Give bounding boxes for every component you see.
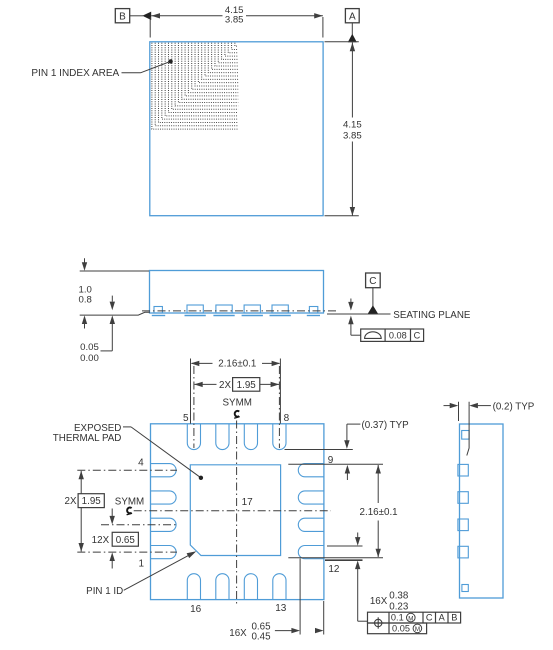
extension line top view lower-right xyxy=(325,215,359,217)
leader (0.37) TYP xyxy=(344,424,360,449)
svg-text:PIN 1 ID: PIN 1 ID xyxy=(86,586,123,597)
extension line pin13 lead end xyxy=(299,559,301,635)
exposed thermal pad outline xyxy=(190,465,280,556)
svg-text:12X: 12X xyxy=(92,535,110,546)
pin 8 slot (top row) xyxy=(273,424,286,450)
dimension 1.0/0.8 text xyxy=(79,284,92,305)
pin 11 slot (right column) xyxy=(298,518,324,531)
pin 1 index area stipple region xyxy=(152,43,238,129)
extension line pad top right xyxy=(288,463,383,465)
pin 13 slot (bottom row) xyxy=(273,574,286,600)
pin 1 slot (left column) xyxy=(151,546,177,559)
symm centerline symbol top xyxy=(234,411,239,418)
pin 4 slot (left column) xyxy=(151,464,177,477)
symm centerline symbol left xyxy=(127,508,132,515)
pin 5 slot (top row) xyxy=(187,424,200,450)
extension line top-left edge xyxy=(149,17,151,38)
leader pin 1 id xyxy=(124,551,197,590)
label (0.2) TYP xyxy=(493,401,535,412)
seating plane gap arrows xyxy=(348,299,361,336)
pin 12 number xyxy=(328,564,340,575)
pin 3 slot (left column) xyxy=(151,491,177,504)
pin 13 number xyxy=(275,603,287,614)
svg-text:4.15: 4.15 xyxy=(343,120,362,131)
bottom view package body outline xyxy=(151,424,324,600)
svg-text:2X: 2X xyxy=(219,380,231,391)
svg-text:0.1: 0.1 xyxy=(391,613,404,623)
right view pad pin 9 xyxy=(458,464,468,476)
pin 5 number xyxy=(183,413,189,424)
right side view body outline xyxy=(460,424,504,598)
side view lead centerline dash-dot xyxy=(142,310,338,312)
vertical symmetry centerline xyxy=(236,421,238,604)
leader exposed thermal pad xyxy=(123,427,203,480)
seating plane line xyxy=(327,313,391,315)
dimension 16X 0.38/0.23 text xyxy=(370,591,409,613)
svg-text:0.38: 0.38 xyxy=(389,591,409,602)
datum B flag xyxy=(115,9,129,23)
side view body outline xyxy=(150,271,324,314)
svg-text:(0.2) TYP: (0.2) TYP xyxy=(493,401,535,412)
label SEATING PLANE xyxy=(393,310,471,321)
extension line pin12 bottom xyxy=(325,559,363,561)
dimension 2X 1.95 top xyxy=(194,378,279,392)
lead width arrows pin12 xyxy=(355,533,368,622)
svg-text:PIN 1 INDEX AREA: PIN 1 INDEX AREA xyxy=(31,68,119,79)
svg-text:SEATING PLANE: SEATING PLANE xyxy=(393,310,471,321)
right view pad pin 11 xyxy=(458,519,468,531)
svg-text:0.00: 0.00 xyxy=(80,353,99,364)
dimension 4.15/3.85 height text xyxy=(343,120,362,142)
dimension 0.05 upper arrow xyxy=(110,296,115,311)
seating plane extension left xyxy=(80,312,150,315)
dimension 4.15/3.85 height line xyxy=(350,42,355,215)
dimension 4.15/3.85 width text xyxy=(225,5,244,26)
extension line pad bottom right xyxy=(288,557,383,559)
right view pad pin 12 xyxy=(458,546,468,558)
svg-text:4: 4 xyxy=(138,458,144,469)
right view top pad square xyxy=(462,431,469,440)
dimension 16X 0.65/0.45 xyxy=(229,622,323,643)
svg-text:3.85: 3.85 xyxy=(343,131,362,142)
pin 17 number xyxy=(242,497,254,508)
svg-text:C: C xyxy=(426,613,433,623)
pin 9 number xyxy=(328,455,334,466)
feature control frame 0.08 C xyxy=(361,329,424,341)
svg-text:17: 17 xyxy=(242,497,254,508)
svg-text:SYMM: SYMM xyxy=(223,397,252,408)
svg-text:2.16±0.1: 2.16±0.1 xyxy=(360,507,398,518)
dimension 0.05/0.00 text xyxy=(80,342,99,364)
svg-text:SYMM: SYMM xyxy=(115,497,144,508)
svg-text:(0.37) TYP: (0.37) TYP xyxy=(362,420,410,431)
dimension 2X 1.95 left xyxy=(65,471,105,552)
pin 6 slot (top row) xyxy=(216,424,229,450)
svg-text:C: C xyxy=(414,331,421,341)
top view package body outline xyxy=(150,42,323,216)
extension line side top xyxy=(80,270,149,272)
extension line top-right edge xyxy=(322,17,324,38)
svg-text:M: M xyxy=(408,615,413,622)
right view pad pin 10 xyxy=(458,492,468,504)
pin 5 column centerline xyxy=(193,366,195,448)
svg-text:16X: 16X xyxy=(229,628,247,639)
label PIN 1 INDEX AREA xyxy=(31,68,119,79)
pin 16 number xyxy=(190,604,202,615)
svg-text:8: 8 xyxy=(284,413,290,424)
svg-text:0.05: 0.05 xyxy=(80,342,99,353)
label PIN 1 ID xyxy=(86,586,123,597)
horizontal symmetry centerline xyxy=(134,510,331,512)
pin 4 row centerline xyxy=(77,469,177,471)
pin 1 number xyxy=(139,559,145,570)
side view terminal bumps xyxy=(152,305,320,316)
pin 9 slot (right column) xyxy=(298,464,324,477)
svg-text:2.16±0.1: 2.16±0.1 xyxy=(218,359,256,370)
pin 1 row centerline xyxy=(77,551,177,553)
svg-text:2X: 2X xyxy=(65,496,77,507)
pin 7 slot (top row) xyxy=(244,424,257,450)
svg-text:0.08: 0.08 xyxy=(389,331,407,341)
datum C triangle xyxy=(368,288,379,314)
svg-text:C: C xyxy=(369,276,376,287)
pin 15 slot (bottom row) xyxy=(216,574,229,600)
svg-text:3.85: 3.85 xyxy=(225,15,244,26)
label (0.37) TYP xyxy=(362,420,410,431)
svg-text:0.05: 0.05 xyxy=(392,623,410,633)
pin 8 number xyxy=(284,413,290,424)
svg-text:B: B xyxy=(119,11,126,22)
extension line pad left face xyxy=(458,402,460,421)
svg-text:1: 1 xyxy=(139,559,145,570)
svg-text:0.8: 0.8 xyxy=(79,294,92,305)
label SYMM left xyxy=(115,497,144,508)
extension line pin12 top xyxy=(327,545,363,547)
pin 16 slot (bottom row) xyxy=(187,574,200,600)
pin 12 slot (right column) xyxy=(298,546,324,559)
extension line pad right face xyxy=(467,402,469,456)
pin 10 slot (right column) xyxy=(298,491,324,504)
datum B leader and triangle xyxy=(130,12,152,20)
dimension 2.16 +/-0.1 width xyxy=(191,359,281,370)
datum A leader and triangle xyxy=(348,23,357,42)
svg-text:5: 5 xyxy=(183,413,189,424)
dimension 12X 0.65 left xyxy=(92,509,139,569)
svg-text:9: 9 xyxy=(328,455,334,466)
dimension 1.0/0.8 bottom arrow xyxy=(82,315,87,328)
leader PIN 1 INDEX AREA xyxy=(122,59,173,73)
svg-text:A: A xyxy=(439,613,446,623)
label SYMM top xyxy=(223,397,252,408)
label EXPOSED THERMAL PAD xyxy=(53,423,122,444)
svg-text:0.65: 0.65 xyxy=(116,535,136,546)
svg-text:0.45: 0.45 xyxy=(251,632,271,643)
svg-text:12: 12 xyxy=(328,564,340,575)
svg-text:13: 13 xyxy=(275,603,287,614)
pin 14 slot (bottom row) xyxy=(244,574,257,600)
extension lines pad width xyxy=(191,359,281,424)
dimension 2.16 +/-0.1 height xyxy=(360,465,398,558)
svg-text:16: 16 xyxy=(190,604,202,615)
dimension 1.0/0.8 top arrow xyxy=(82,258,87,271)
datum C flag xyxy=(366,273,381,288)
right view bottom pad square xyxy=(462,585,468,592)
svg-text:M: M xyxy=(415,626,420,633)
svg-text:B: B xyxy=(451,613,457,623)
extension line body right lower xyxy=(323,601,325,635)
pin 8 column centerline xyxy=(278,366,280,448)
svg-text:0.23: 0.23 xyxy=(389,601,409,612)
extension line top view upper-right xyxy=(325,41,359,43)
arrow pad-top gap xyxy=(345,465,350,480)
pin 2 slot (left column) xyxy=(151,518,177,531)
dimension 0.05 lower arrow leader xyxy=(101,315,116,351)
svg-text:THERMAL PAD: THERMAL PAD xyxy=(53,433,122,444)
svg-text:16X: 16X xyxy=(370,596,388,607)
feature control frame position tolerance xyxy=(368,612,461,634)
datum A flag xyxy=(345,9,359,23)
pin 4 number xyxy=(138,458,144,469)
svg-text:1.95: 1.95 xyxy=(237,380,257,391)
dimension (0.2) TYP xyxy=(444,403,491,408)
dimension 4.15/3.85 width line xyxy=(151,13,323,18)
extension line pin8 slot bottom xyxy=(285,449,353,451)
pin 2 row centerline xyxy=(101,524,177,526)
svg-text:A: A xyxy=(349,11,356,22)
svg-text:1.95: 1.95 xyxy=(82,496,102,507)
